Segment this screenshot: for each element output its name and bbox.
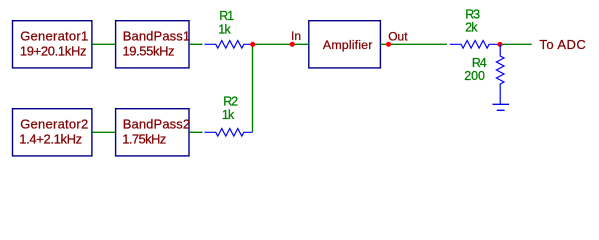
svg-text:BandPass1: BandPass1 bbox=[123, 28, 191, 43]
wire Generator2 to BandPass2 bbox=[92, 131, 115, 133]
svg-text:In: In bbox=[291, 29, 301, 43]
svg-text:2k: 2k bbox=[465, 21, 478, 35]
block BandPass2 bbox=[116, 109, 191, 156]
svg-text:Amplifier: Amplifier bbox=[323, 38, 373, 52]
svg-text:R4: R4 bbox=[472, 56, 487, 70]
svg-text:200: 200 bbox=[464, 69, 485, 83]
node In bbox=[290, 29, 301, 47]
node Out bbox=[386, 30, 408, 47]
resistor R3 bbox=[450, 7, 500, 48]
svg-text:1.4+2.1kHz: 1.4+2.1kHz bbox=[19, 131, 82, 146]
svg-text:Generator1: Generator1 bbox=[20, 28, 88, 43]
svg-text:To ADC: To ADC bbox=[539, 37, 586, 52]
resistor R4 bbox=[464, 44, 504, 103]
block Generator1 bbox=[13, 21, 92, 68]
svg-text:Generator2: Generator2 bbox=[20, 116, 88, 131]
svg-text:R1: R1 bbox=[219, 9, 234, 23]
wire BandPass1 to R1 bbox=[189, 43, 203, 45]
svg-text:1.75kHz: 1.75kHz bbox=[122, 131, 166, 146]
svg-text:1k: 1k bbox=[218, 23, 231, 37]
wire BandPass2 to R2 bbox=[189, 131, 203, 133]
wire Generator1 to BandPass1 bbox=[92, 43, 115, 45]
wire node2 to ADC bbox=[500, 43, 532, 45]
svg-text:1k: 1k bbox=[222, 108, 235, 122]
svg-text:19+20.1kHz: 19+20.1kHz bbox=[20, 43, 86, 58]
svg-text:Out: Out bbox=[388, 30, 408, 44]
svg-text:BandPass2: BandPass2 bbox=[123, 116, 191, 131]
junction node1 bbox=[250, 42, 255, 47]
wire Amplifier Out bbox=[380, 43, 447, 45]
op-amp block U1 Amplifier bbox=[309, 21, 381, 68]
block Generator2 bbox=[13, 109, 92, 156]
svg-text:R2: R2 bbox=[223, 95, 238, 109]
wire node1 to Amplifier In bbox=[253, 43, 309, 45]
svg-text:R3: R3 bbox=[465, 7, 480, 21]
svg-text:19.55kHz: 19.55kHz bbox=[122, 43, 174, 58]
wire node1 down to R2 bbox=[252, 44, 254, 132]
ground bbox=[493, 104, 510, 110]
junction node2 bbox=[497, 42, 502, 47]
resistor R2 bbox=[205, 95, 253, 137]
resistor R1 bbox=[205, 9, 253, 48]
block BandPass1 bbox=[116, 21, 191, 68]
